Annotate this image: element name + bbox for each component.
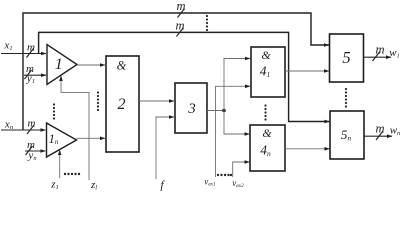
svg-text:2: 2: [118, 96, 126, 113]
svg-text:&: &: [117, 59, 127, 73]
wire input yn: [25, 150, 46, 152]
slash m on wn: [376, 131, 383, 140]
block 3: [175, 83, 207, 133]
label m on wn: [375, 122, 384, 136]
label yn: [27, 150, 36, 163]
svg-text:z1: z1: [50, 179, 59, 192]
dots ellipsis between bus lines A and B: [206, 15, 208, 31]
svg-text:vвх2: vвх2: [232, 178, 244, 189]
label m on yn: [27, 139, 35, 151]
wire triangle 1n output to block 2: [77, 137, 106, 139]
svg-text:41: 41: [260, 64, 271, 80]
wire input xn: [1, 129, 46, 131]
slash m on line A: [178, 9, 185, 18]
wire bus line B (x1 bypass to 5n): up at x=38.6, across y=32.4, down at x=288.6: [39, 32, 330, 121]
label m on w1: [375, 43, 384, 57]
label w1: [389, 47, 400, 60]
label wn: [390, 125, 400, 138]
svg-text:m: m: [175, 19, 184, 33]
dots ellipsis between v inputs: [217, 174, 232, 176]
svg-text:m: m: [27, 42, 35, 54]
wire block 3 output to junction: [207, 110, 224, 112]
label m on y1: [26, 63, 34, 75]
svg-text:vвх1: vвх1: [204, 177, 216, 188]
dots ellipsis between blocks 5_1 and 5n: [345, 88, 347, 108]
wire bus line A (xn bypass to 5_1): up at x=23, across y=13, down at x=311: [23, 13, 329, 130]
label z_l: [90, 179, 97, 192]
AND block 2: [106, 56, 139, 152]
label 5n: [341, 127, 352, 143]
slash m on xn: [27, 125, 34, 134]
AND block 4n: [250, 125, 285, 171]
wire input x1: [1, 53, 46, 55]
label m on x1: [27, 42, 35, 54]
dots ellipsis between triangles: [53, 103, 55, 119]
svg-text:w1: w1: [389, 47, 400, 60]
svg-text:&: &: [262, 126, 272, 140]
wire input v_in2 to block 4n input 2: [233, 162, 250, 177]
svg-text:m: m: [375, 122, 384, 136]
svg-text:1n: 1n: [49, 132, 59, 146]
label & of block 4_1: [261, 48, 271, 62]
label 5_1: [342, 48, 350, 67]
wire input v_in1 to block 4_1 input 2: [216, 86, 251, 177]
slash m on yn: [26, 146, 33, 155]
svg-text:x1: x1: [3, 40, 12, 53]
AND block 4_1: [251, 47, 285, 97]
wire output w1: [364, 56, 392, 58]
label v_in1: [204, 177, 216, 188]
svg-text:xn: xn: [4, 119, 13, 132]
wire input y1: [24, 74, 46, 76]
svg-text:f: f: [160, 178, 165, 192]
svg-text:3: 3: [187, 101, 196, 117]
wire z_l feed: up into triangle 1 bottom: [61, 76, 89, 180]
label 2: [118, 96, 126, 113]
label 1: [55, 56, 63, 73]
svg-text:m: m: [176, 0, 185, 13]
output block 5_1: [330, 34, 364, 82]
svg-text:5n: 5n: [341, 127, 352, 143]
svg-text:5: 5: [342, 48, 350, 67]
label f: [160, 178, 165, 192]
label m on line A: [176, 0, 185, 13]
dots ellipsis between blocks 4_1 and 4n: [264, 104, 266, 120]
output block 5n: [330, 111, 364, 159]
node junction dot: [222, 109, 226, 113]
label m on line B: [175, 19, 184, 33]
comparator triangle 1n: [47, 123, 77, 157]
slash m on w1: [373, 52, 380, 61]
dots ellipsis left of block 2: [97, 91, 99, 111]
label & of block 4n: [262, 126, 272, 140]
label 3: [187, 101, 196, 117]
slash m on x1: [27, 49, 34, 58]
slash m on y1: [25, 70, 32, 79]
wire block 4_1 output to block 5_1: [285, 70, 329, 72]
wire triangle 1 output to block 2: [77, 64, 105, 66]
label x1: [3, 40, 12, 53]
label m on xn: [28, 118, 36, 130]
label y1: [26, 73, 35, 86]
svg-text:1: 1: [55, 56, 63, 73]
comparator triangle 1: [47, 45, 77, 85]
wire block 2 output to block 3: [139, 100, 174, 102]
svg-text:4n: 4n: [260, 143, 271, 159]
label 4_1: [260, 64, 271, 80]
svg-text:&: &: [261, 48, 271, 62]
dots ellipsis between z1 and zl: [64, 173, 80, 175]
svg-text:zl: zl: [90, 179, 97, 191]
wire block 4n output to block 5n: [285, 148, 330, 150]
wire output wn: [364, 135, 392, 137]
wire z1 feed: up into triangle 1n bottom: [59, 150, 61, 178]
wire junction down to block 4n input 1: [224, 111, 250, 135]
label 4n: [260, 143, 271, 159]
wire junction up to block 4_1 input 1: [224, 59, 250, 111]
svg-text:m: m: [28, 118, 36, 130]
label z1: [50, 179, 59, 192]
svg-text:wn: wn: [390, 125, 400, 138]
label xn: [4, 119, 13, 132]
label 1n: [49, 132, 59, 146]
label & of block 2: [117, 59, 127, 73]
label v_in2: [232, 178, 244, 189]
wire input f to block 3: [156, 117, 174, 179]
slash m on line B: [177, 28, 184, 37]
svg-text:m: m: [375, 43, 384, 57]
